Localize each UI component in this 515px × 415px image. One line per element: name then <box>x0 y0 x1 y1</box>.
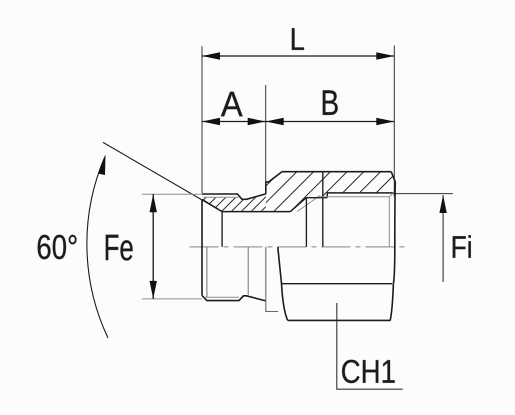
arrowhead Fe top <box>150 194 157 212</box>
male thread OD top line <box>202 194 266 199</box>
label A <box>221 92 243 117</box>
arrowhead on arc <box>98 154 106 175</box>
hex front face edge (top half) <box>265 182 267 194</box>
dimension line A <box>202 121 266 123</box>
counterbore line <box>306 197 327 199</box>
arrowhead Fe bottom <box>150 281 157 299</box>
arrowhead L right <box>376 52 394 59</box>
hex rear lower edge and corner <box>390 284 393 321</box>
hex front lower edge and corner <box>278 247 288 320</box>
male thread root top (thin) <box>204 196 240 198</box>
female thread major line <box>327 193 394 198</box>
dimension line Fi <box>442 195 444 282</box>
arrowhead Fi <box>439 195 446 213</box>
countersink cone edge (inside section) <box>202 199 222 211</box>
arrowhead B left <box>266 118 284 125</box>
female thread minor line (thin) <box>319 196 389 198</box>
male chamfer bottom corner <box>202 295 207 300</box>
wire: A/B middle extension line <box>265 85 267 182</box>
internal step cone <box>290 198 306 212</box>
centerline (dash-dot axis) <box>190 246 409 248</box>
label CH1 <box>342 360 395 383</box>
chamfer circle edge (thin vertical) <box>206 247 208 297</box>
hatch section lines (male stud) <box>154 150 333 230</box>
hex front face edge (bottom half) <box>266 247 279 312</box>
Fe top extension line <box>142 193 202 195</box>
runout groove circle edge (thin vertical) <box>247 247 249 295</box>
step circle edge <box>305 198 307 247</box>
arrowhead A left <box>202 118 220 125</box>
label B <box>323 90 338 115</box>
Fi extension line <box>392 193 453 195</box>
male thread OD bottom line with runout <box>207 296 266 301</box>
male thread root bottom (thin) <box>204 296 239 298</box>
hex vertex edge line <box>282 283 392 285</box>
label L <box>292 28 304 50</box>
arrowhead L left <box>202 52 220 59</box>
CH1 leader line <box>337 303 403 389</box>
hex rear top chamfer <box>391 172 395 182</box>
label 60 degrees <box>38 235 77 259</box>
arrowhead B right <box>376 118 394 125</box>
port countersink circle edge (thin) <box>389 192 394 247</box>
dimension line L <box>202 55 394 57</box>
60 degree arc <box>87 157 108 338</box>
male end face <box>201 199 203 295</box>
label Fi <box>453 235 471 258</box>
dimension line Fe <box>152 194 154 299</box>
60 degree cone construction line <box>103 142 222 211</box>
cone base circle edge <box>221 212 223 247</box>
thread start circle edge <box>322 171 324 246</box>
Fe bottom extension line <box>142 298 202 300</box>
hex rear face edge <box>393 182 395 284</box>
wire: L right extension line <box>393 46 395 197</box>
arrowhead A right <box>248 118 266 125</box>
through bore line <box>222 211 290 213</box>
hex top outline <box>282 171 391 173</box>
hex bottom outline <box>288 319 391 321</box>
dimension line B <box>266 121 395 123</box>
wire: L left extension line <box>201 46 203 193</box>
internal cone thin line <box>297 196 320 212</box>
hatch section lines (hex body) <box>205 150 452 230</box>
hex front top chamfer <box>266 172 282 182</box>
label Fe <box>106 235 133 261</box>
